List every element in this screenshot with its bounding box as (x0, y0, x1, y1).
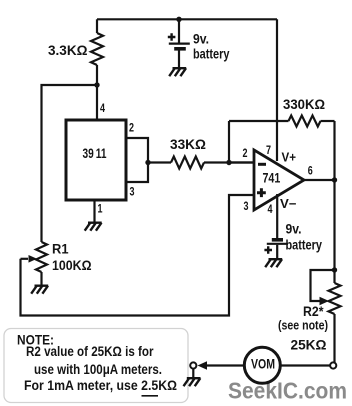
svg-text:SeekIC.com: SeekIC.com (228, 378, 347, 404)
svg-text:V+: V+ (282, 151, 297, 165)
svg-text:(see note): (see note) (278, 319, 328, 333)
svg-text:100KΩ: 100KΩ (52, 257, 92, 273)
svg-text:VOM: VOM (251, 357, 275, 372)
svg-text:25KΩ: 25KΩ (291, 337, 327, 353)
svg-text:4: 4 (100, 101, 105, 115)
svg-text:battery: battery (286, 237, 323, 253)
svg-text:4: 4 (268, 202, 273, 216)
svg-text:R2 value of 25KΩ is for: R2 value of 25KΩ is for (26, 344, 154, 359)
svg-text:battery: battery (193, 46, 230, 62)
svg-text:use with 100μA meters.: use with 100μA meters. (34, 362, 162, 377)
svg-text:330KΩ: 330KΩ (283, 96, 325, 112)
svg-text:For 1mA meter, use 2.5KΩ: For 1mA meter, use 2.5KΩ (24, 378, 177, 393)
svg-text:V−: V− (280, 197, 297, 211)
svg-text:741: 741 (263, 170, 281, 185)
svg-text:3: 3 (130, 185, 135, 199)
svg-text:1: 1 (98, 202, 103, 216)
svg-text:39 11: 39 11 (83, 145, 107, 161)
svg-text:9v.: 9v. (286, 221, 302, 237)
svg-text:2: 2 (243, 146, 248, 160)
svg-text:3.3KΩ: 3.3KΩ (48, 42, 88, 58)
svg-text:R1: R1 (52, 242, 69, 257)
svg-text:33KΩ: 33KΩ (170, 136, 206, 152)
svg-text:3: 3 (244, 199, 249, 213)
svg-text:2: 2 (129, 121, 134, 135)
svg-text:6: 6 (308, 164, 313, 178)
svg-text:7: 7 (266, 143, 271, 157)
svg-text:R2*: R2* (303, 303, 324, 319)
svg-text:9v.: 9v. (193, 30, 209, 46)
